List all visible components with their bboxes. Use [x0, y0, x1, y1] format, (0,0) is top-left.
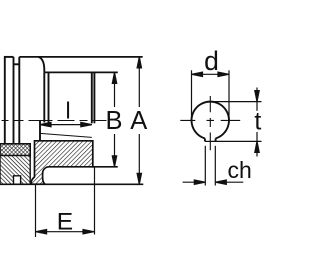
d extension lines	[192, 70, 230, 120]
svg-text:E: E	[57, 209, 73, 236]
svg-text:ch: ch	[228, 157, 252, 183]
skirt top edge + A extension	[19, 56, 142, 58]
t top extension	[210, 101, 261, 103]
hub face line 2	[48, 72, 50, 122]
hub face line 1	[43, 72, 45, 122]
E right extension	[94, 167, 96, 235]
tapered bore wall	[40, 133, 92, 137]
bottom edge + A extension	[0, 183, 143, 185]
cap split line 1	[13, 57, 15, 144]
shoulder fillet	[38, 57, 44, 73]
E left extension	[35, 185, 37, 237]
dimension ch	[183, 180, 244, 184]
dimension t	[255, 88, 259, 157]
svg-text:A: A	[130, 107, 147, 135]
dimension B	[112, 72, 116, 166]
hub top edge + B extension	[44, 71, 118, 73]
split groove bottom	[14, 63, 20, 65]
cap split line 2	[18, 57, 20, 144]
hub right face line 1	[91, 72, 93, 123]
centerline left view	[2, 120, 107, 122]
cap skirt section (back hatch)	[0, 156, 30, 185]
horizontal centerline	[180, 119, 240, 121]
cap rim top	[4, 56, 14, 58]
svg-text:B: B	[105, 107, 122, 135]
svg-text:d: d	[204, 46, 219, 76]
hub right face line 2	[93, 72, 95, 123]
B bottom extension	[93, 166, 118, 168]
dimension E	[36, 230, 94, 234]
ch extension lines	[205, 146, 215, 186]
cap left face	[4, 56, 6, 144]
svg-text:l: l	[65, 97, 70, 123]
dimension A	[137, 57, 141, 184]
vertical centerline	[209, 96, 211, 150]
knurled rim block (cross hatch)	[0, 144, 30, 156]
bore bottom face	[39, 121, 41, 141]
bore circle with slot at bottom	[192, 102, 230, 142]
hub section hatched block	[31, 141, 93, 184]
dimension l	[40, 122, 92, 126]
dimension d	[192, 72, 230, 76]
svg-text:t: t	[254, 107, 261, 135]
slot bottom + t extension	[205, 140, 262, 142]
